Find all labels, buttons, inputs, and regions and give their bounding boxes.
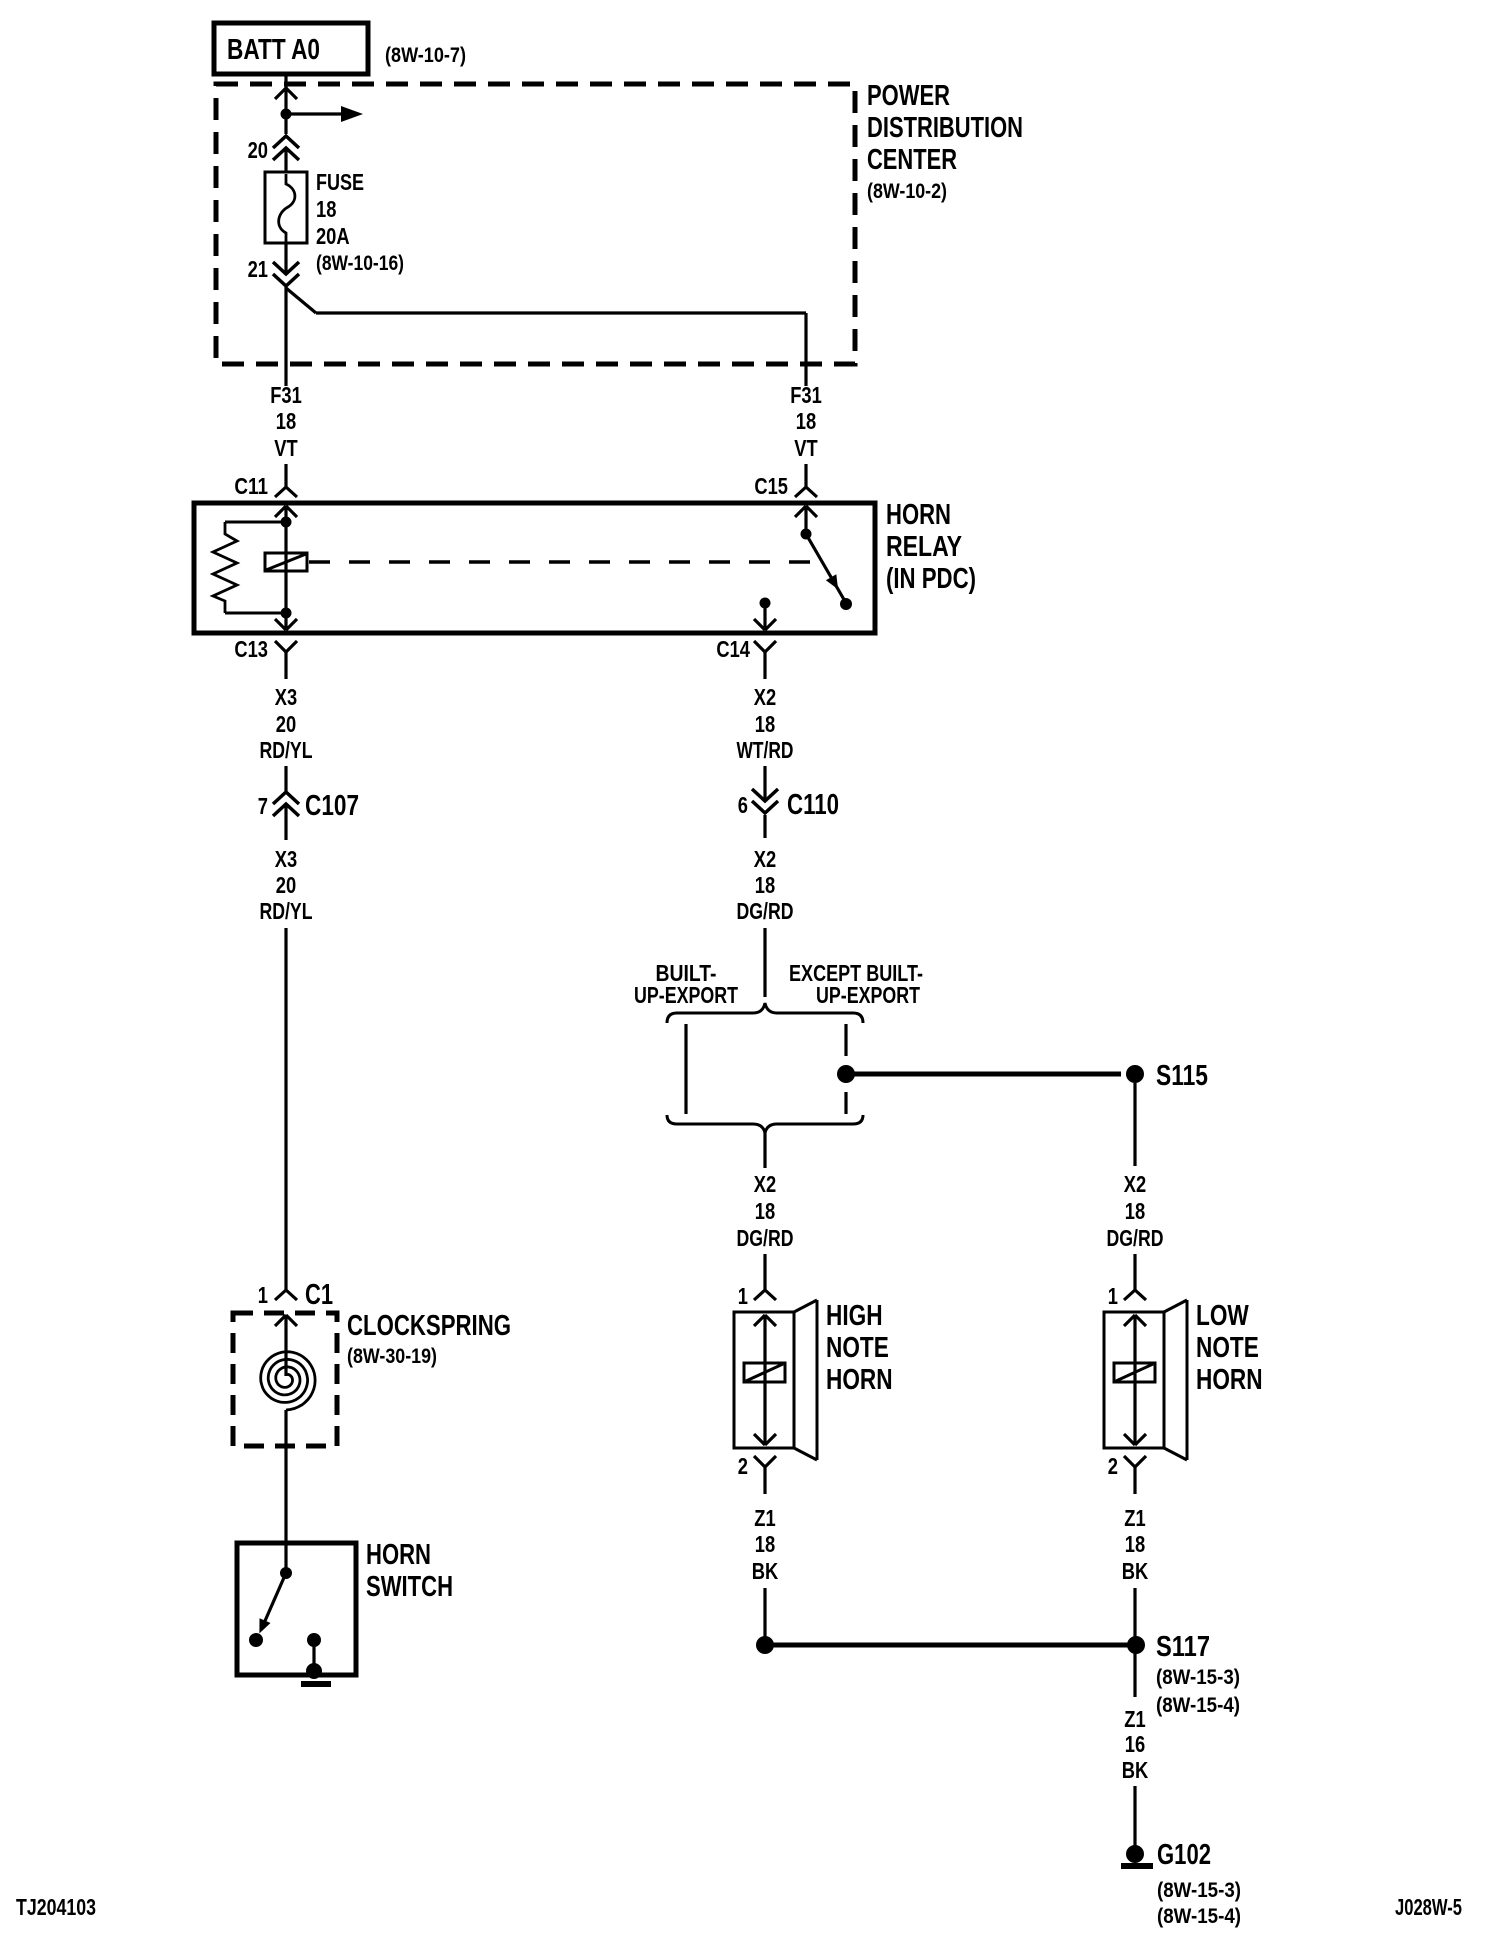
low note horn pin 2 arrow xyxy=(1124,1434,1135,1445)
cavity 20 connector chevrons xyxy=(273,136,299,148)
svg-text:RD/YL: RD/YL xyxy=(260,898,313,924)
wire into spiral center xyxy=(284,1315,287,1376)
relay coil top node xyxy=(281,517,292,528)
variant split bottom brace xyxy=(667,1115,863,1133)
C11 male arrow inside relay xyxy=(275,506,286,517)
svg-text:HORN: HORN xyxy=(366,1539,431,1571)
battery feed box BATT A0 xyxy=(214,23,368,74)
svg-text:F31: F31 xyxy=(270,382,302,408)
wire into C110 xyxy=(763,766,766,801)
branch diagonal inside PDC xyxy=(286,288,316,313)
svg-text:C15: C15 xyxy=(754,473,788,499)
svg-text:18: 18 xyxy=(276,408,296,434)
variant split top brace xyxy=(667,1003,863,1023)
svg-text:HORN: HORN xyxy=(1196,1364,1263,1396)
svg-text:18: 18 xyxy=(796,408,816,434)
svg-text:2: 2 xyxy=(738,1453,748,1479)
svg-text:C1: C1 xyxy=(305,1279,333,1311)
svg-text:Z1: Z1 xyxy=(1124,1505,1145,1531)
svg-text:16: 16 xyxy=(1125,1731,1145,1757)
svg-text:G102: G102 xyxy=(1157,1839,1211,1871)
wire S115 down xyxy=(1133,1083,1136,1166)
svg-text:X2: X2 xyxy=(754,1171,776,1197)
svg-text:HORN: HORN xyxy=(886,499,951,531)
long wire down to clockspring xyxy=(284,928,287,1290)
svg-text:(8W-10-16): (8W-10-16) xyxy=(316,252,404,275)
svg-text:20: 20 xyxy=(248,137,268,163)
svg-text:CLOCKSPRING: CLOCKSPRING xyxy=(347,1310,511,1342)
relay coil box symbol xyxy=(265,553,307,571)
wire fuse to cavity 21 xyxy=(284,243,287,274)
high note horn internal wire xyxy=(763,1315,766,1445)
high note horn pin 1 arrow xyxy=(754,1315,765,1326)
horn switch open contact node xyxy=(249,1633,263,1647)
svg-text:(8W-15-3): (8W-15-3) xyxy=(1156,1666,1240,1689)
wire below C107 xyxy=(284,804,287,840)
svg-text:X3: X3 xyxy=(275,846,297,872)
C13 exit arrow inside relay xyxy=(275,619,286,630)
low note horn pin 1 arrow xyxy=(1124,1315,1135,1326)
svg-text:Z1: Z1 xyxy=(1124,1706,1145,1732)
ground G102 node xyxy=(1126,1845,1144,1863)
svg-text:RELAY: RELAY xyxy=(886,531,962,563)
wire low horn to S117 xyxy=(1133,1588,1136,1640)
svg-text:1: 1 xyxy=(258,1282,268,1308)
wire from spiral down to horn switch xyxy=(284,1410,287,1573)
wire into low note horn xyxy=(1133,1254,1136,1290)
except built-up-export branch dashes xyxy=(844,1024,847,1056)
ground node on switch case xyxy=(306,1663,322,1679)
svg-text:C14: C14 xyxy=(716,636,750,662)
low note horn body xyxy=(1104,1312,1164,1448)
svg-text:S115: S115 xyxy=(1156,1060,1208,1092)
low note horn coil symbol xyxy=(1114,1363,1155,1382)
wire into connector C11 xyxy=(284,464,287,487)
svg-text:BK: BK xyxy=(1122,1558,1149,1584)
svg-text:DG/RD: DG/RD xyxy=(737,1225,794,1251)
branch horizontal wire inside PDC xyxy=(316,311,806,314)
svg-text:BK: BK xyxy=(1122,1757,1149,1783)
svg-text:NOTE: NOTE xyxy=(826,1332,889,1364)
svg-text:20A: 20A xyxy=(316,223,350,249)
branch arrow to other circuits xyxy=(286,112,341,115)
svg-text:(IN PDC): (IN PDC) xyxy=(886,563,976,595)
wire into connector C15 xyxy=(804,464,807,487)
fuse element S-curve xyxy=(279,174,295,242)
svg-text:SWITCH: SWITCH xyxy=(366,1571,453,1603)
wire S117 down xyxy=(1133,1652,1136,1697)
svg-text:VT: VT xyxy=(274,435,298,461)
built-up-export branch wire xyxy=(684,1024,687,1114)
C1 male arrow inside clockspring xyxy=(275,1315,286,1326)
ground bar below horn switch xyxy=(301,1681,331,1687)
junction node at S117 left xyxy=(756,1636,774,1654)
in-line connector C107 chevrons xyxy=(273,792,299,804)
connector C1 symbol xyxy=(275,1290,286,1300)
svg-text:DISTRIBUTION: DISTRIBUTION xyxy=(867,112,1023,144)
svg-text:(8W-30-19): (8W-30-19) xyxy=(347,1345,437,1368)
high note horn pin 2 connector symbol xyxy=(754,1456,765,1467)
svg-text:C11: C11 xyxy=(234,473,268,499)
wire high horn to S117 xyxy=(763,1588,766,1640)
svg-text:18: 18 xyxy=(1125,1198,1145,1224)
svg-text:J028W-5: J028W-5 xyxy=(1395,1894,1462,1920)
high note horn speaker flare xyxy=(794,1300,817,1312)
low note horn pin 2 connector symbol xyxy=(1124,1456,1135,1467)
svg-text:2: 2 xyxy=(1108,1453,1118,1479)
high note horn body xyxy=(734,1312,794,1448)
pin 1 connector symbol (low horn) xyxy=(1124,1290,1135,1300)
relay coil bottom node xyxy=(281,608,292,619)
relay switch arm with arrowhead xyxy=(806,534,846,603)
pin 1 connector symbol (high horn) xyxy=(754,1290,765,1300)
svg-text:20: 20 xyxy=(276,872,296,898)
fuse F18 box xyxy=(265,172,307,243)
dashed actuation line coil to switch xyxy=(309,560,818,564)
wire down to right F31 exit xyxy=(804,313,807,386)
svg-text:1: 1 xyxy=(738,1283,748,1309)
svg-text:18: 18 xyxy=(755,1531,775,1557)
in-line connector C110 chevrons xyxy=(752,789,778,801)
svg-text:18: 18 xyxy=(755,1198,775,1224)
svg-text:7: 7 xyxy=(258,793,268,819)
ground G102 bar xyxy=(1121,1863,1153,1869)
wire to splice S115 xyxy=(846,1072,1121,1077)
horn switch arm with arrowhead xyxy=(261,1573,286,1630)
svg-text:UP-EXPORT: UP-EXPORT xyxy=(634,982,738,1008)
horn relay box xyxy=(194,503,875,633)
svg-text:DG/RD: DG/RD xyxy=(1107,1225,1164,1251)
svg-text:HORN: HORN xyxy=(826,1364,893,1396)
svg-text:20: 20 xyxy=(276,711,296,737)
junction node in PDC xyxy=(281,109,292,120)
svg-text:VT: VT xyxy=(794,435,818,461)
connector C15 symbol xyxy=(795,487,806,497)
relay switch contact node xyxy=(840,598,852,610)
wire C11 to coil node xyxy=(284,506,287,522)
svg-text:X2: X2 xyxy=(754,846,776,872)
wire down to variant split xyxy=(763,928,766,997)
svg-text:(8W-10-7): (8W-10-7) xyxy=(385,44,466,67)
C14 male arrow inside relay xyxy=(754,619,765,630)
svg-text:LOW: LOW xyxy=(1196,1300,1249,1332)
svg-text:NOTE: NOTE xyxy=(1196,1332,1259,1364)
svg-text:18: 18 xyxy=(1125,1531,1145,1557)
svg-text:FUSE: FUSE xyxy=(316,169,364,195)
wire from BATT A0 into PDC xyxy=(284,74,287,114)
low note horn speaker flare xyxy=(1164,1300,1187,1312)
wire to fuse cavity 20 xyxy=(284,114,287,134)
C15 male arrow inside relay xyxy=(795,506,806,517)
wire chevron to fuse xyxy=(284,148,287,173)
svg-text:(8W-15-4): (8W-15-4) xyxy=(1156,1694,1240,1717)
high note horn pin 2 arrow xyxy=(754,1434,765,1445)
horn switch input node xyxy=(280,1567,292,1579)
svg-text:X2: X2 xyxy=(1124,1171,1146,1197)
svg-text:C13: C13 xyxy=(234,636,268,662)
horn switch box xyxy=(237,1543,356,1675)
relay switch pivot node xyxy=(801,529,812,540)
wire into C107 xyxy=(284,766,287,791)
svg-text:C107: C107 xyxy=(305,790,359,822)
cavity 21 connector chevrons xyxy=(273,262,299,274)
splice junction node xyxy=(837,1065,855,1083)
svg-text:F31: F31 xyxy=(790,382,822,408)
clockspring dashed box xyxy=(233,1313,337,1446)
svg-text:UP-EXPORT: UP-EXPORT xyxy=(816,982,920,1008)
relay output node C14 xyxy=(760,598,771,609)
svg-text:X3: X3 xyxy=(275,684,297,710)
low note horn internal wire xyxy=(1133,1315,1136,1445)
svg-text:X2: X2 xyxy=(754,684,776,710)
svg-text:1: 1 xyxy=(1108,1283,1118,1309)
svg-text:C110: C110 xyxy=(787,789,839,821)
wire below C110 xyxy=(763,815,766,838)
svg-text:6: 6 xyxy=(738,792,748,818)
svg-text:21: 21 xyxy=(248,256,268,282)
svg-text:S117: S117 xyxy=(1156,1631,1210,1663)
svg-text:CENTER: CENTER xyxy=(867,144,957,176)
svg-text:(8W-10-2): (8W-10-2) xyxy=(867,180,947,203)
wire to ground G102 xyxy=(1133,1786,1136,1847)
svg-text:POWER: POWER xyxy=(867,80,950,112)
svg-text:Z1: Z1 xyxy=(754,1505,775,1531)
relay coil resistor (zigzag) xyxy=(225,521,286,524)
svg-text:DG/RD: DG/RD xyxy=(737,898,794,924)
high note horn coil symbol xyxy=(744,1363,785,1382)
horn switch ground contact node xyxy=(307,1633,321,1647)
svg-text:(8W-15-4): (8W-15-4) xyxy=(1157,1905,1241,1928)
power distribution center dashed box xyxy=(216,84,855,364)
svg-text:HIGH: HIGH xyxy=(826,1300,883,1332)
connector C11 symbol xyxy=(275,487,286,497)
svg-text:TJ204103: TJ204103 xyxy=(16,1894,96,1920)
wire below split xyxy=(763,1133,766,1168)
svg-text:18: 18 xyxy=(316,196,336,222)
arrowhead up at PDC entry xyxy=(275,88,286,99)
wire down to left F31 exit xyxy=(284,287,287,386)
splice S115 xyxy=(1126,1065,1144,1083)
relay coil wire through coil box xyxy=(284,522,287,613)
svg-text:(8W-15-3): (8W-15-3) xyxy=(1157,1879,1241,1902)
svg-text:18: 18 xyxy=(755,872,775,898)
splice S117 xyxy=(1127,1636,1145,1654)
svg-text:18: 18 xyxy=(755,711,775,737)
svg-text:BK: BK xyxy=(752,1558,779,1584)
svg-text:WT/RD: WT/RD xyxy=(737,737,794,763)
wire to splice S117 xyxy=(765,1643,1136,1648)
svg-text:RD/YL: RD/YL xyxy=(260,737,313,763)
svg-text:BATT A0: BATT A0 xyxy=(227,34,320,66)
clockspring spiral coil xyxy=(261,1352,315,1410)
wire into high note horn xyxy=(763,1254,766,1290)
